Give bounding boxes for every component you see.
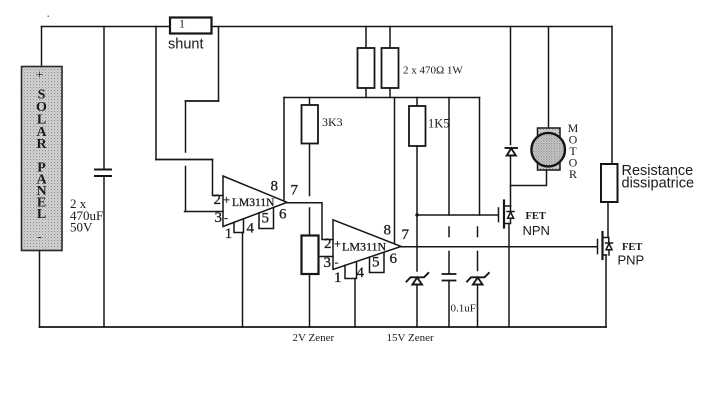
svg-text:FET: FET: [526, 211, 546, 222]
zener diode Z1 (15V): [407, 273, 429, 285]
U2 ground wire: [354, 279, 356, 328]
wire: horizontal jog left: [186, 100, 219, 102]
wire: shunt right drop: [218, 27, 220, 102]
svg-text:shunt: shunt: [168, 37, 203, 53]
svg-text:7: 7: [291, 183, 299, 199]
wire: diode branch from rail: [510, 27, 512, 145]
divider bottom lead: [309, 274, 311, 327]
op-amp U2 LM311N triangle: [333, 220, 401, 270]
wire: solar panel bottom lead: [39, 251, 41, 328]
svg-text:4: 4: [357, 265, 365, 281]
svg-text:50V: 50V: [70, 220, 93, 235]
svg-text:3: 3: [215, 210, 223, 226]
svg-text:-: -: [37, 229, 41, 244]
U2 pin 5 balance box: [370, 252, 385, 272]
3K3 bottom lead (hop gap): [309, 144, 311, 196]
capacitor C1 plates: [95, 169, 111, 171]
wire to 0.1uF cap: [448, 252, 450, 274]
U2 pin labels: [324, 223, 410, 287]
svg-text:1: 1: [179, 17, 185, 31]
Q1 source wire to ground rail: [508, 224, 510, 328]
svg-text:6: 6: [279, 207, 287, 223]
op-amp U1 LM311N triangle: [223, 176, 287, 227]
wire: motor branch from rail: [548, 27, 550, 129]
svg-text:L: L: [37, 207, 46, 222]
svg-text:8: 8: [384, 223, 392, 239]
capacitor 0.1uF: [443, 273, 456, 275]
solar panel body: [22, 67, 63, 251]
zener diode Z2 (15V): [467, 273, 489, 285]
svg-text:+: +: [36, 67, 43, 82]
svg-text:8: 8: [271, 179, 279, 195]
U1 pins 1-4 strap: [234, 219, 244, 233]
wire: down to pin 3 (lower part): [185, 167, 187, 212]
svg-text:R: R: [569, 167, 577, 181]
svg-text:0.1uF: 0.1uF: [451, 303, 476, 315]
wire: diode to FET drain: [510, 156, 512, 207]
motor body: [538, 128, 561, 170]
svg-text:-: -: [224, 211, 228, 225]
U1 pin labels: [214, 179, 299, 243]
Q2 drain wire to ground rail: [605, 255, 607, 327]
capacitor C1 bottom lead: [103, 176, 105, 327]
wire: into pin 3: [185, 211, 224, 213]
resistor 3K3: [302, 105, 319, 144]
speck: [48, 16, 50, 18]
svg-text:2: 2: [324, 236, 332, 252]
svg-text:3K3: 3K3: [322, 115, 343, 129]
U1 pin 8 wire: [283, 98, 285, 201]
svg-text:dissipatrice: dissipatrice: [622, 176, 695, 192]
resistor R1 470ohm: [358, 48, 375, 88]
svg-text:NPN: NPN: [523, 223, 550, 238]
hanging wire node A: [448, 98, 450, 216]
svg-text:+: +: [334, 237, 341, 251]
capacitor C1 top lead: [103, 27, 105, 169]
wire to U2 pin 3: [319, 256, 334, 258]
3K3 top lead: [309, 98, 311, 106]
motor label: [568, 121, 579, 181]
U2 pins 1-4 strap: [345, 262, 357, 279]
svg-text:3: 3: [324, 255, 332, 271]
wire to zener 2: [477, 252, 479, 271]
U2 output wire pin 7: [401, 246, 597, 248]
shunt resistor box: [170, 18, 212, 34]
transistor Q1 FET NPN: [499, 201, 515, 228]
junction node: [415, 213, 418, 216]
1K5 bottom lead down to zener: [416, 146, 418, 271]
wire: gate line left part: [417, 214, 480, 216]
wire: corner drop to NPN gate: [480, 98, 498, 216]
svg-text:4: 4: [247, 221, 255, 237]
svg-text:2 x 470Ω 1W: 2 x 470Ω 1W: [403, 65, 463, 77]
svg-text:2V Zener: 2V Zener: [293, 332, 335, 344]
wire: motor bottom lead: [511, 170, 547, 186]
U1 ground wire: [242, 233, 244, 328]
wire: to PNP FET: [607, 202, 609, 238]
svg-text:FET: FET: [622, 242, 642, 253]
wire: shunt left drop: [155, 27, 157, 160]
resistor dissipatrice box: [601, 164, 618, 202]
svg-text:1: 1: [334, 270, 342, 286]
svg-text:+: +: [223, 193, 230, 207]
wire: solar panel top lead: [41, 27, 43, 67]
svg-text:1K5: 1K5: [428, 117, 450, 131]
resistor 1K5: [409, 106, 426, 146]
svg-text:-: -: [335, 255, 339, 269]
svg-text:7: 7: [402, 227, 410, 243]
U1 output wire pin 7: [287, 203, 333, 240]
svg-text:2: 2: [214, 192, 222, 208]
resistor R2 470ohm: [382, 48, 399, 88]
svg-text:5: 5: [372, 255, 380, 271]
diode D1: [506, 148, 518, 156]
1K5 top lead: [416, 98, 418, 107]
wire: drop to pin 2: [213, 160, 224, 196]
U2 pin 8 wire: [394, 98, 396, 244]
svg-text:LM311N: LM311N: [342, 240, 387, 254]
svg-text:6: 6: [390, 251, 398, 267]
mid horizontal rail: [284, 97, 480, 99]
resistor divider lower box: [302, 236, 319, 275]
ground rail (bottom): [40, 326, 607, 328]
svg-text:1: 1: [225, 226, 233, 242]
wire: top positive rail left segment: [42, 26, 171, 28]
U1 pin 5 balance box: [259, 208, 274, 229]
svg-text:R: R: [36, 137, 47, 152]
svg-text:PNP: PNP: [618, 253, 645, 268]
wire: horizontal to comparator 1 + input: [156, 159, 213, 161]
dashed link A: [448, 227, 450, 237]
svg-text:LM311N: LM311N: [232, 197, 275, 209]
svg-text:5: 5: [262, 211, 270, 227]
transistor Q2 FET PNP: [598, 232, 613, 259]
svg-text:15V Zener: 15V Zener: [387, 332, 434, 344]
wire: right branch from rail: [611, 27, 613, 165]
wire: top positive rail right segment: [212, 26, 613, 28]
dashed link B: [477, 227, 479, 237]
solar panel labels: [36, 67, 48, 244]
wire: down to pin 3 (upper part, hop gap): [185, 101, 187, 152]
